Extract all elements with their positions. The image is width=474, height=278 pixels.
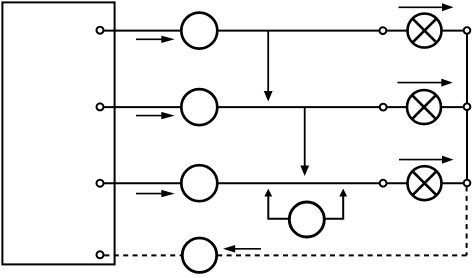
meter M1 (181, 13, 217, 49)
dashed return wire horizontal (100, 254, 467, 256)
lamp L1 (408, 14, 442, 48)
lamp arrow row 2 (398, 79, 453, 87)
down arrow row2 to row3 (300, 108, 309, 177)
lamp arrow row 3 (399, 156, 454, 164)
power source box (2, 2, 114, 264)
current arrow row 1 (136, 36, 175, 43)
node bus row 1 (464, 27, 471, 34)
lamp L2 (407, 90, 441, 124)
meter M3 (181, 165, 217, 201)
meter M2 (181, 89, 217, 125)
return meter bottom (182, 238, 216, 272)
lamp arrow row 1 (399, 3, 454, 11)
current arrow row 3 (136, 190, 175, 197)
wire row 1 (100, 30, 467, 32)
wire row 2 (100, 106, 467, 108)
node row 2 right (380, 104, 387, 111)
dashed return wire vertical (466, 187, 468, 256)
node row 3 right (380, 180, 387, 187)
terminal bottom left (97, 251, 104, 258)
down arrow row1 to row2 (264, 31, 273, 102)
up arrow left (264, 189, 272, 197)
node bus row 3 (464, 180, 471, 187)
node row 1 right (380, 27, 387, 34)
right bus wire (466, 31, 468, 184)
terminal row 3 left (97, 180, 104, 187)
return arrow bottom (223, 245, 261, 253)
wire row 3 (100, 182, 467, 184)
terminal row 2 left (97, 103, 104, 110)
lamp L3 (408, 166, 442, 200)
node bus row 2 (464, 103, 471, 110)
up arrow right (339, 189, 347, 197)
terminal row 1 left (97, 27, 104, 34)
current arrow row 2 (136, 112, 175, 119)
generator G (289, 202, 324, 237)
generator link arms (268, 196, 343, 219)
